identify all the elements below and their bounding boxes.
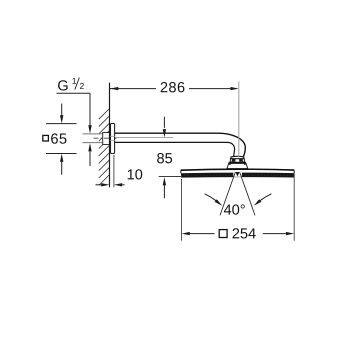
label 40 degrees xyxy=(224,204,245,214)
ball joint collar xyxy=(231,156,244,159)
pipe fitting box xyxy=(103,133,110,145)
shower head face plate xyxy=(181,173,294,178)
dimension 65 xyxy=(43,104,77,175)
flange escutcheon xyxy=(111,123,115,153)
dimension 286 xyxy=(110,82,239,92)
arm inner highlight line xyxy=(115,137,173,139)
label G 1/2 xyxy=(57,78,92,166)
dimension 254 xyxy=(182,172,295,241)
pipe bore through flange xyxy=(110,136,115,140)
shower head right cap xyxy=(293,170,295,173)
joint base cone xyxy=(229,162,246,164)
extension line head center xyxy=(238,81,240,156)
spray cone right line xyxy=(240,172,255,215)
face notch xyxy=(233,172,242,177)
angle arrow right xyxy=(254,194,272,206)
wall hatching xyxy=(99,109,110,186)
shower arm tube xyxy=(115,133,246,156)
ball joint nut xyxy=(230,159,244,163)
wall line xyxy=(109,83,111,188)
shower head left cap xyxy=(180,170,182,173)
pipe stub G1/2 behind wall xyxy=(83,134,110,143)
dimension 85 xyxy=(157,117,181,199)
angle arrow left xyxy=(205,194,223,206)
shower head top surface xyxy=(181,169,295,170)
pipe centerline xyxy=(94,137,117,139)
spray cone left line xyxy=(220,172,235,215)
dimension 10 xyxy=(96,155,143,187)
